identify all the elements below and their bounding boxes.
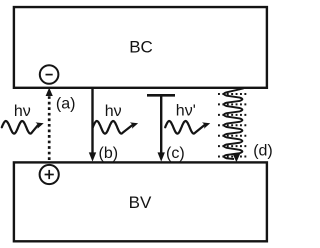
svg-text:hν: hν	[14, 103, 31, 120]
svg-text:(b): (b)	[99, 145, 119, 162]
dotted absorption arrow (a)	[48, 96, 51, 161]
photon wave right	[165, 121, 204, 134]
photon wave middle	[93, 121, 133, 134]
svg-text:hν': hν'	[176, 102, 196, 119]
electron circle (minus)	[40, 65, 59, 84]
valence band box BV	[14, 162, 267, 241]
phonon level dotted rows (d)	[218, 94, 248, 157]
svg-text:BV: BV	[129, 193, 152, 212]
trap level bar of (c)	[147, 94, 175, 97]
radiative arrow (b)	[91, 88, 93, 153]
conduction band box BC	[14, 7, 267, 88]
arrow (c)	[160, 95, 162, 153]
photon wave left	[2, 121, 38, 134]
multiphonon relaxation coil (d)	[224, 88, 244, 159]
svg-text:hν: hν	[105, 103, 122, 120]
svg-text:(d): (d)	[253, 143, 273, 160]
hole circle (plus)	[40, 165, 59, 184]
arrowhead (d)	[233, 154, 241, 163]
svg-text:BC: BC	[129, 38, 153, 57]
svg-text:(c): (c)	[166, 145, 185, 162]
svg-text:(a): (a)	[56, 96, 76, 113]
